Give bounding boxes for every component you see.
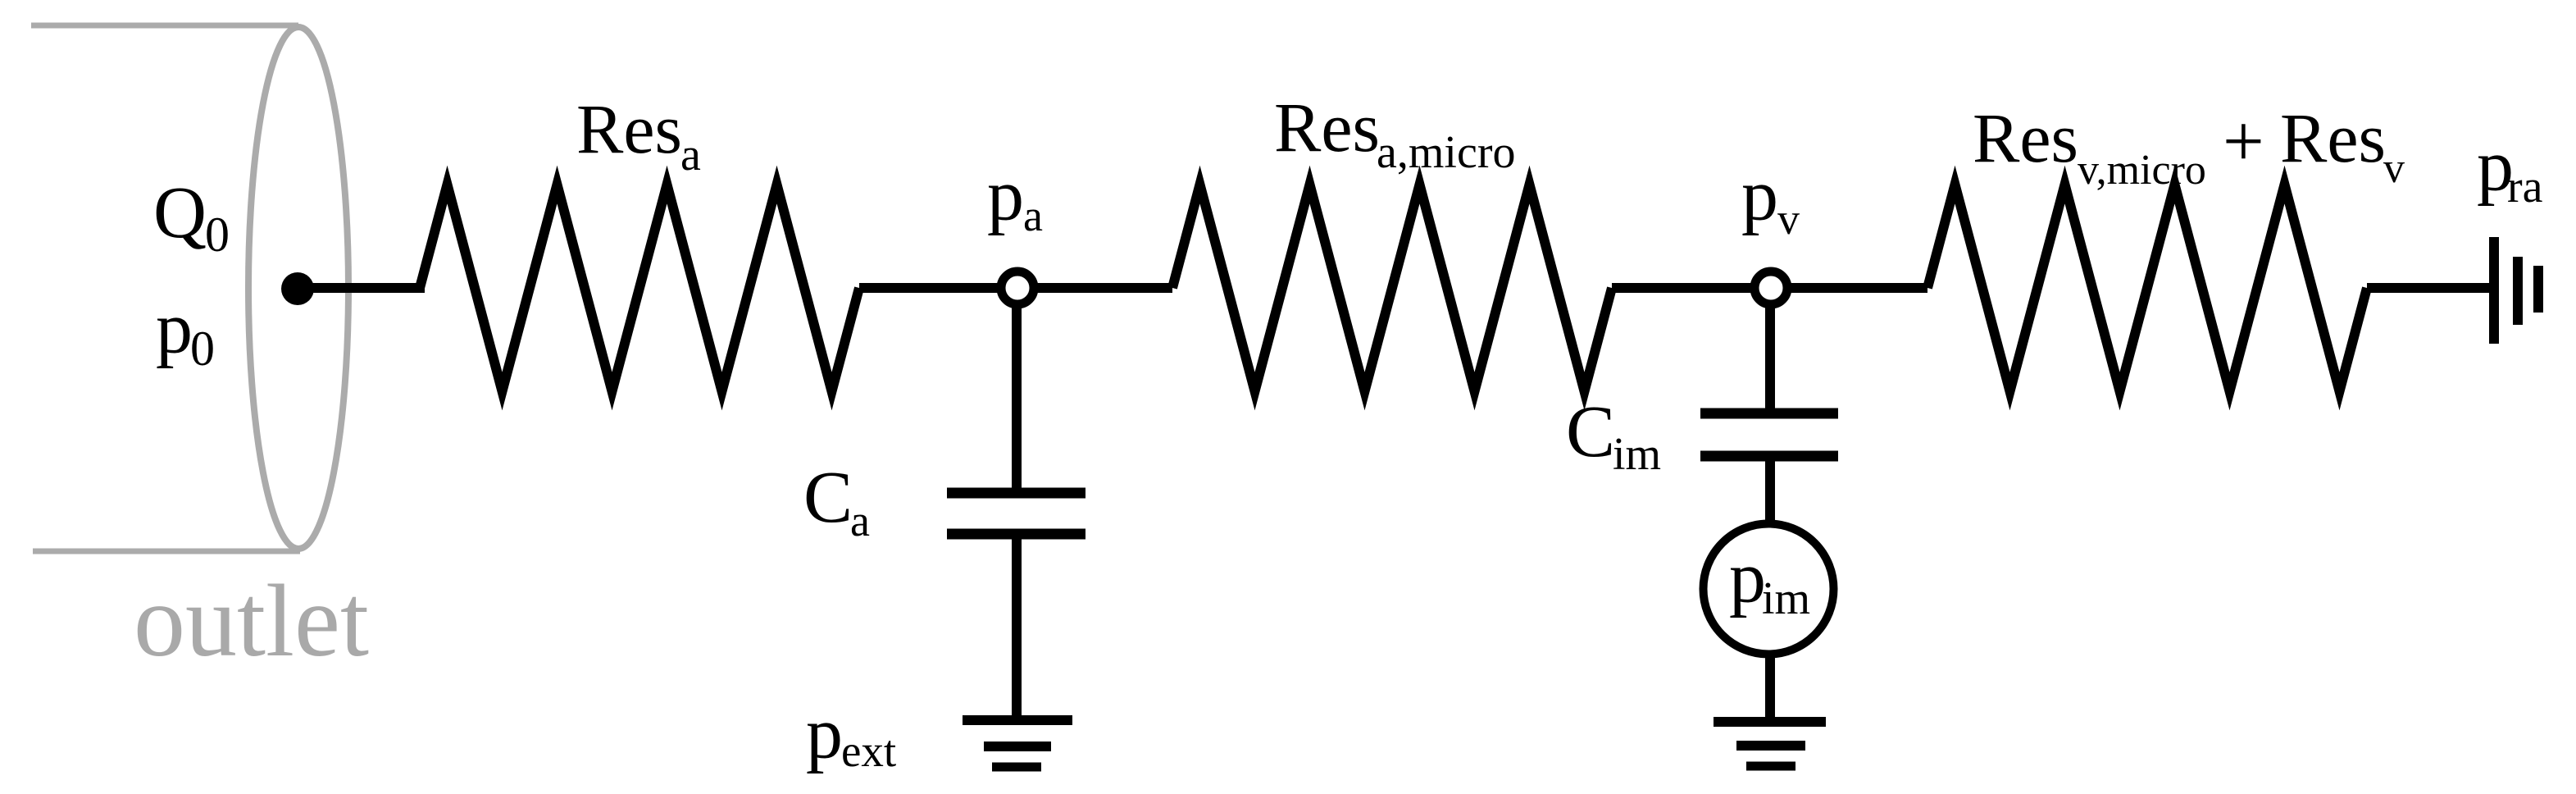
svg-text:0: 0	[205, 208, 230, 262]
svg-text:ext: ext	[841, 726, 896, 776]
source pim circle	[1704, 524, 1834, 655]
svg-text:v: v	[2383, 145, 2405, 192]
outlet cylinder bottom wall	[33, 549, 300, 554]
ground below pim	[1714, 717, 1826, 727]
svg-text:0: 0	[190, 322, 215, 376]
capacitor Ca top plate	[947, 488, 1085, 499]
svg-text:Res: Res	[576, 89, 682, 168]
svg-text:a: a	[1023, 191, 1043, 240]
outlet cylinder face ellipse	[248, 27, 348, 549]
svg-text:Res: Res	[1274, 88, 1380, 167]
svg-text:im: im	[1762, 573, 1810, 624]
outlet cylinder top wall	[31, 23, 298, 29]
svg-text:Q: Q	[153, 172, 207, 253]
wire Res_a to node pa	[859, 283, 1017, 293]
capacitor Ca bottom plate	[947, 529, 1085, 540]
svg-text:p: p	[1729, 537, 1766, 618]
node Q0 terminal dot	[281, 272, 314, 305]
svg-text:v: v	[1777, 194, 1800, 244]
wire Cim to source pim	[1765, 456, 1775, 533]
capacitor Cim bottom plate	[1700, 451, 1838, 462]
svg-text:ra: ra	[2507, 162, 2543, 212]
svg-text:Res: Res	[1973, 98, 2078, 177]
svg-text:a: a	[680, 130, 701, 180]
svg-text:C: C	[1566, 391, 1615, 472]
terminal p_ra bar 3	[2533, 266, 2543, 313]
svg-text:a: a	[850, 496, 870, 545]
svg-text:p: p	[156, 288, 193, 369]
node pv	[1755, 272, 1787, 304]
terminal p_ra bar 2	[2513, 257, 2523, 325]
svg-text:im: im	[1613, 429, 1661, 480]
svg-text:+: +	[2223, 101, 2264, 182]
wire node pv to Res_v	[1771, 283, 1927, 293]
node pa	[1001, 272, 1034, 304]
wire Ca to ground	[1012, 534, 1022, 720]
resistor Res_v,micro plus Res_v	[1927, 185, 2367, 391]
svg-text:p: p	[806, 693, 843, 774]
capacitor Cim top plate	[1700, 408, 1838, 419]
wire node pa to Res_a,micro	[1017, 283, 1172, 293]
wire source pim to ground	[1765, 652, 1775, 722]
svg-text:Res: Res	[2280, 98, 2386, 177]
wire Res_v to terminal p_ra	[2367, 283, 2494, 293]
svg-text:p: p	[987, 155, 1024, 236]
resistor Res_a,micro	[1172, 185, 1612, 391]
wire Res_a,micro to node pv	[1612, 283, 1771, 293]
svg-text:C: C	[803, 457, 853, 538]
svg-text:a,micro: a,micro	[1377, 127, 1515, 178]
svg-text:outlet: outlet	[134, 564, 369, 678]
terminal p_ra bar 1	[2489, 237, 2499, 344]
wire dot to Res_a	[298, 283, 425, 293]
svg-text:p: p	[1741, 155, 1778, 236]
ground below Ca	[963, 715, 1072, 725]
resistor Res_a	[420, 185, 859, 391]
wire node pa down to Ca	[1012, 288, 1022, 493]
svg-text:v,micro: v,micro	[2078, 147, 2206, 194]
wire node pv down to Cim	[1765, 288, 1775, 413]
